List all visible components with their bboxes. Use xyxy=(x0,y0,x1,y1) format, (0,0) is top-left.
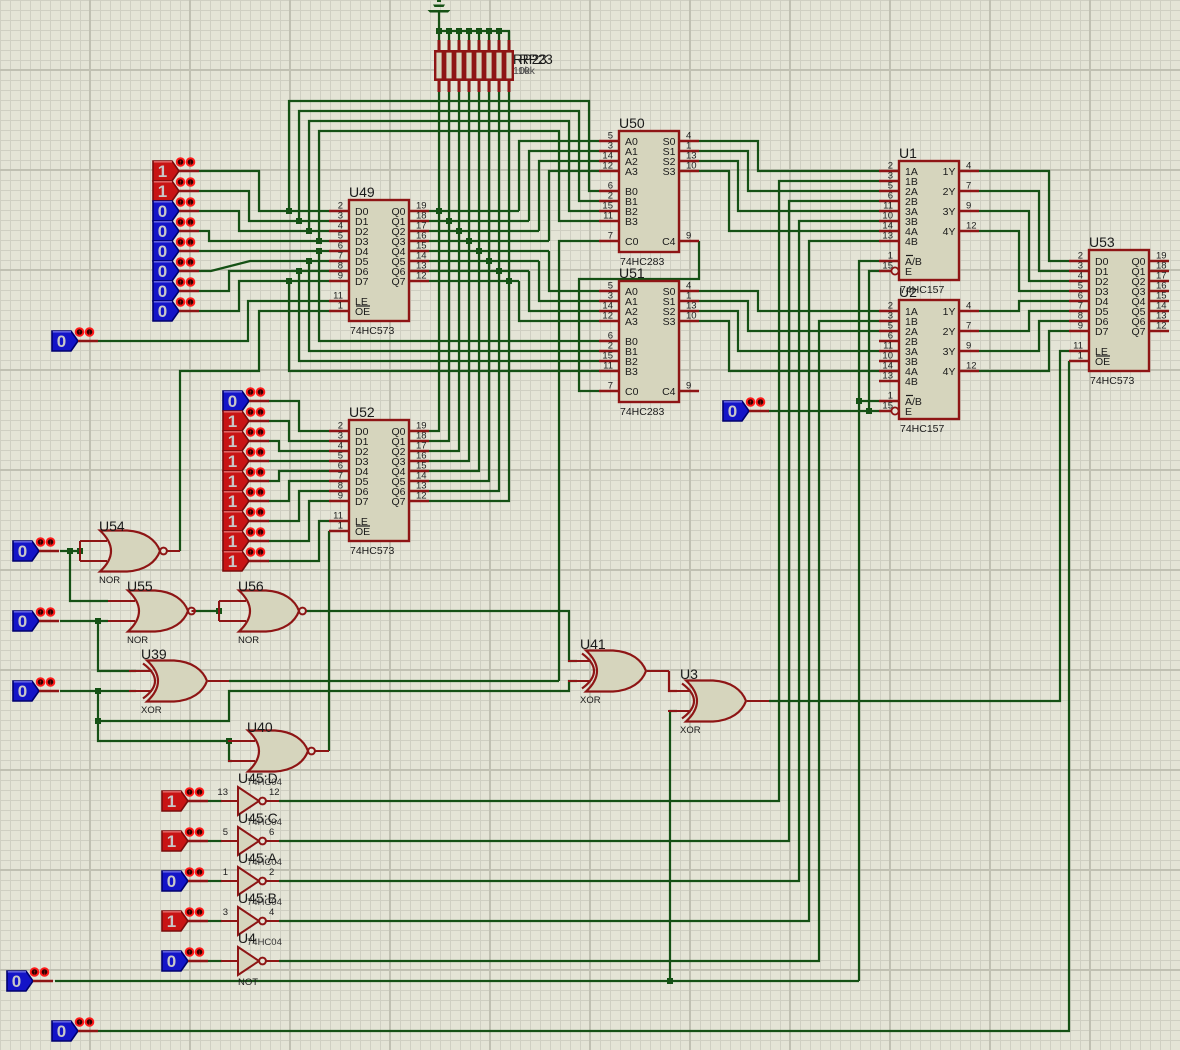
wire U3.out to U53.LE xyxy=(769,351,1069,701)
svg-text:74HC04: 74HC04 xyxy=(247,897,282,908)
wire A/B U2 stub xyxy=(859,400,879,402)
svg-text:↑: ↑ xyxy=(188,830,192,837)
wire U45:C.out to U1.2B xyxy=(279,201,879,841)
svg-text:↑: ↑ xyxy=(249,410,253,417)
svg-text:↑: ↑ xyxy=(179,280,183,287)
svg-text:↑: ↑ xyxy=(188,790,192,797)
svg-text:0: 0 xyxy=(57,332,66,351)
mux U2 74HC157 xyxy=(879,284,979,435)
wire RP23 top bus xyxy=(439,31,509,40)
wire pin341 to U49.LE xyxy=(98,301,329,341)
svg-text:74HC04: 74HC04 xyxy=(247,857,282,868)
wire in52-3 to U52.D2 xyxy=(268,441,329,451)
wire net551 tap to U55.in1 xyxy=(70,551,108,601)
adder U50 74HC283 xyxy=(599,115,699,268)
svg-text:0: 0 xyxy=(228,392,237,411)
svg-text:B3: B3 xyxy=(625,366,638,378)
wire U49 Q3 row xyxy=(429,240,549,242)
svg-text:↓: ↓ xyxy=(759,400,763,407)
svg-text:↓: ↓ xyxy=(189,220,193,227)
ground xyxy=(428,0,451,13)
wire input8 to U49.D7 xyxy=(199,281,329,311)
junction (859,401) xyxy=(856,398,862,404)
svg-text:↓: ↓ xyxy=(259,390,263,397)
svg-text:↓: ↓ xyxy=(198,870,202,877)
wire inverter input y=881 xyxy=(208,880,222,882)
wire RP23 top pin 1 drop xyxy=(438,31,440,40)
logic state input 6 (U49.D5) xyxy=(153,258,199,281)
svg-text:D7: D7 xyxy=(355,496,369,508)
svg-text:↓: ↓ xyxy=(49,680,53,687)
wire U51 A feed x=549 xyxy=(549,251,599,291)
wire net981 to U3.in2 xyxy=(670,711,677,981)
svg-text:↓: ↓ xyxy=(259,430,263,437)
svg-text:1: 1 xyxy=(228,472,237,491)
wire U49 Q0 row xyxy=(429,210,519,212)
wire RP23 top pin 4 drop xyxy=(468,31,470,40)
U40 output stub xyxy=(315,750,329,752)
inverter U45:B xyxy=(221,890,282,935)
svg-text:↓: ↓ xyxy=(198,950,202,957)
svg-text:U52: U52 xyxy=(349,404,375,420)
svg-text:↓: ↓ xyxy=(189,240,193,247)
wire U50 A feed x=539 xyxy=(539,161,599,231)
logic state input 7 (U49.D6) xyxy=(153,278,199,301)
junction (98,621) xyxy=(95,618,101,624)
wire U4.out to U2.1B xyxy=(279,321,879,961)
wire pin691 row to U39.in2 xyxy=(60,690,136,692)
svg-text:0: 0 xyxy=(18,542,27,561)
wire in52-1 to U52.D0 xyxy=(268,401,329,431)
svg-text:74HC157: 74HC157 xyxy=(900,423,945,435)
wire in52-7 to U52.D6 xyxy=(268,491,329,521)
wire U2.2Y to U53.D5 xyxy=(979,311,1069,331)
wire U51 A feed x=539 xyxy=(539,261,599,301)
svg-text:6: 6 xyxy=(269,827,274,838)
svg-text:9: 9 xyxy=(338,271,343,282)
junction (479,31) xyxy=(476,28,482,34)
svg-text:5: 5 xyxy=(223,827,228,838)
wire pin621 row to U55.in2 xyxy=(60,620,108,622)
svg-text:1: 1 xyxy=(158,162,167,181)
wire in52-9 to U52.LE xyxy=(268,521,329,561)
junction (80,551) xyxy=(77,548,83,554)
svg-text:74HC573: 74HC573 xyxy=(350,325,395,337)
svg-text:1Y: 1Y xyxy=(943,306,956,318)
wire U54.out to U49.OE xyxy=(180,311,329,551)
wire inverter input y=801 xyxy=(208,800,222,802)
svg-text:1: 1 xyxy=(167,832,176,851)
wire in52-4 to U52.D3 xyxy=(268,460,329,462)
svg-text:U40: U40 xyxy=(247,719,273,735)
svg-text:74HC573: 74HC573 xyxy=(1090,375,1135,387)
svg-text:U1: U1 xyxy=(899,145,917,161)
junction (459,231) xyxy=(456,228,462,234)
junction (219,611) xyxy=(216,608,222,614)
wire D4 tap down to U51.B0 xyxy=(319,251,599,341)
svg-text:NOT: NOT xyxy=(238,977,258,988)
logic state pin U45:D input xyxy=(162,788,208,811)
wire U51.S1 to U2.2A xyxy=(699,301,879,331)
wire U41.out jog xyxy=(669,671,677,691)
wire inverter input y=961 xyxy=(208,960,222,962)
U54 output stub xyxy=(167,550,181,552)
logic state pin A/B net xyxy=(7,968,53,991)
junction (319,241) xyxy=(316,238,322,244)
junction (229,741) xyxy=(226,738,232,744)
svg-text:↓: ↓ xyxy=(259,470,263,477)
wire input6 to U49.D5 (diagonal) xyxy=(199,261,329,271)
svg-text:↑: ↑ xyxy=(188,910,192,917)
svg-text:0: 0 xyxy=(18,682,27,701)
svg-text:A3: A3 xyxy=(625,316,638,328)
svg-text:NOR: NOR xyxy=(127,635,148,646)
svg-text:↑: ↑ xyxy=(78,1020,82,1027)
wire input5 to U49.D4 xyxy=(199,250,329,252)
inverter U45:A xyxy=(221,850,282,895)
junction (98,721) xyxy=(95,718,101,724)
svg-text:OE: OE xyxy=(355,526,370,538)
svg-text:↓: ↓ xyxy=(189,200,193,207)
logic state input 7 (U52) xyxy=(223,508,269,531)
svg-text:11: 11 xyxy=(603,211,613,222)
wire D6 tap down to U51.B2 xyxy=(299,271,599,361)
svg-text:0: 0 xyxy=(728,402,737,421)
svg-text:U54: U54 xyxy=(99,518,125,534)
wire U45:B.out to U1.4B xyxy=(279,241,879,921)
svg-text:9: 9 xyxy=(966,201,971,212)
svg-text:10: 10 xyxy=(686,311,697,322)
svg-text:U51: U51 xyxy=(619,265,645,281)
U41 output stub xyxy=(647,670,669,672)
wire inverter input y=921 xyxy=(208,920,222,922)
wire U1.2Y to U53.D1 xyxy=(979,191,1069,271)
svg-text:↑: ↑ xyxy=(179,260,183,267)
svg-text:12: 12 xyxy=(966,361,977,372)
wire U50.S2 to U1.3A xyxy=(699,161,879,211)
logic state input 2 (U52) xyxy=(223,408,269,431)
svg-text:4Y: 4Y xyxy=(943,226,956,238)
svg-text:XOR: XOR xyxy=(580,695,601,706)
svg-text:↑: ↑ xyxy=(179,180,183,187)
wire U2.1Y to U53.D4 xyxy=(979,301,1069,311)
svg-text:↓: ↓ xyxy=(259,450,263,457)
resistor pack RP23 xyxy=(434,40,553,92)
wire U50 A feed x=549 xyxy=(549,171,599,241)
svg-text:NOR: NOR xyxy=(238,635,259,646)
svg-text:D7: D7 xyxy=(1095,326,1109,338)
wire RP23 top pin 5 drop xyxy=(478,31,480,40)
wire net1031 to U53.OE xyxy=(98,361,1069,1031)
svg-text:D7: D7 xyxy=(355,276,369,288)
wire input7 to U49.D6 xyxy=(199,271,329,291)
svg-text:0: 0 xyxy=(167,952,176,971)
svg-text:S3: S3 xyxy=(663,166,676,178)
junction (299,221) xyxy=(296,218,302,224)
svg-text:↑: ↑ xyxy=(249,450,253,457)
wire in52-6 to U52.D5 xyxy=(268,481,329,501)
svg-text:1: 1 xyxy=(228,452,237,471)
junction (98,691) xyxy=(95,688,101,694)
svg-text:↓: ↓ xyxy=(198,830,202,837)
wire U1.1Y to U53.D0 xyxy=(979,171,1069,261)
logic state pin U55 input xyxy=(13,608,59,631)
svg-text:E: E xyxy=(905,406,912,418)
wire pin551 row xyxy=(60,550,80,552)
logic state pin E net xyxy=(723,398,769,421)
wire U50.C4 to U51.C0 xyxy=(579,241,699,391)
svg-text:4B: 4B xyxy=(905,236,918,248)
wire U51.S0 to U2.1A xyxy=(699,291,879,311)
svg-text:1Y: 1Y xyxy=(943,166,956,178)
svg-text:7: 7 xyxy=(966,321,971,332)
svg-text:12: 12 xyxy=(602,161,613,172)
XOR gate U39 xyxy=(129,646,207,716)
svg-text:C4: C4 xyxy=(662,236,676,248)
svg-text:↓: ↓ xyxy=(49,610,53,617)
svg-text:1: 1 xyxy=(228,432,237,451)
junction (319,251) xyxy=(316,248,322,254)
junction (449,221) xyxy=(446,218,452,224)
wire net621 tap to U39.in1 xyxy=(98,621,136,671)
svg-text:↓: ↓ xyxy=(189,300,193,307)
svg-text:1: 1 xyxy=(228,492,237,511)
svg-text:9: 9 xyxy=(686,381,691,392)
svg-text:↑: ↑ xyxy=(39,540,43,547)
svg-text:↓: ↓ xyxy=(189,180,193,187)
wire Q-bus vertical x=499 xyxy=(429,92,499,491)
svg-text:↑: ↑ xyxy=(188,870,192,877)
wire ground stem xyxy=(438,12,440,31)
svg-text:XOR: XOR xyxy=(141,705,162,716)
svg-text:Q7: Q7 xyxy=(391,496,405,508)
svg-text:↓: ↓ xyxy=(189,280,193,287)
svg-text:2Y: 2Y xyxy=(943,186,956,198)
junction (289,211) xyxy=(286,208,292,214)
wire U45:A.out to U1.3B xyxy=(279,221,879,881)
svg-text:9: 9 xyxy=(966,341,971,352)
svg-text:↑: ↑ xyxy=(249,490,253,497)
svg-text:9: 9 xyxy=(338,491,343,502)
svg-text:↓: ↓ xyxy=(259,550,263,557)
svg-text:9: 9 xyxy=(686,231,691,242)
svg-text:↓: ↓ xyxy=(88,1020,92,1027)
wire net691 tap down xyxy=(98,691,229,741)
svg-text:S3: S3 xyxy=(663,316,676,328)
wire net981 to A/B xyxy=(859,261,879,981)
junction (479,251) xyxy=(476,248,482,254)
junction (509,281) xyxy=(506,278,512,284)
logic state pin OE U53 xyxy=(52,1018,98,1041)
svg-text:U56: U56 xyxy=(238,578,264,594)
svg-text:↑: ↑ xyxy=(179,220,183,227)
logic state input 3 (U49.D2) xyxy=(153,198,199,221)
wire U50.S3 to U1.4A xyxy=(699,171,879,231)
junction (459,31) xyxy=(456,28,462,34)
wire RP23 top pin 7 drop xyxy=(498,31,500,40)
wire U49 Q1 row xyxy=(429,220,529,222)
logic state pin U45:B input xyxy=(162,908,208,931)
svg-text:12: 12 xyxy=(602,311,613,322)
svg-text:↓: ↓ xyxy=(88,330,92,337)
junction (499,271) xyxy=(496,268,502,274)
svg-text:12: 12 xyxy=(269,787,280,798)
svg-text:13: 13 xyxy=(882,371,893,382)
junction (869,411) xyxy=(866,408,872,414)
svg-text:↑: ↑ xyxy=(249,470,253,477)
wire input4 to U49.D3 xyxy=(199,231,329,241)
svg-text:↓: ↓ xyxy=(259,530,263,537)
svg-text:12: 12 xyxy=(966,221,977,232)
wire U40 input split xyxy=(229,741,232,761)
svg-text:↓: ↓ xyxy=(198,790,202,797)
svg-text:↑: ↑ xyxy=(749,400,753,407)
svg-text:U39: U39 xyxy=(141,646,167,662)
wire U56.out to U41.in1 xyxy=(306,611,577,661)
svg-text:↑: ↑ xyxy=(188,950,192,957)
svg-text:↑: ↑ xyxy=(179,160,183,167)
logic state input 9 (U52) xyxy=(223,548,269,571)
wire D5 tap down to U51.B1 xyxy=(309,261,599,351)
NOR gate U54 xyxy=(80,518,167,586)
logic state pin U39 input xyxy=(13,678,59,701)
junction (489,31) xyxy=(486,28,492,34)
svg-text:E: E xyxy=(905,266,912,278)
wire U2.3Y to U53.D6 xyxy=(979,321,1069,351)
svg-text:↓: ↓ xyxy=(259,490,263,497)
svg-text:B3: B3 xyxy=(625,216,638,228)
wire net691 to U41.in2 xyxy=(98,681,577,721)
svg-text:12: 12 xyxy=(1156,321,1167,332)
wire D2 tap up xyxy=(309,121,599,231)
svg-text:74HC04: 74HC04 xyxy=(247,777,282,788)
svg-text:3Y: 3Y xyxy=(943,206,956,218)
inverter U45:C xyxy=(221,810,282,855)
svg-text:1: 1 xyxy=(228,512,237,531)
svg-text:↑: ↑ xyxy=(249,510,253,517)
wire inverter input y=841 xyxy=(208,840,222,842)
svg-text:↓: ↓ xyxy=(259,410,263,417)
wire U49 Q4 row xyxy=(429,250,549,252)
svg-text:0: 0 xyxy=(158,262,167,281)
svg-text:↓: ↓ xyxy=(259,510,263,517)
NOR gate U40 xyxy=(228,719,315,772)
svg-text:11: 11 xyxy=(603,361,613,372)
svg-text:↓: ↓ xyxy=(198,910,202,917)
svg-text:0: 0 xyxy=(167,872,176,891)
junction (499,31) xyxy=(496,28,502,34)
svg-text:0: 0 xyxy=(158,282,167,301)
wire pin411 to E xyxy=(768,410,879,412)
svg-text:0: 0 xyxy=(12,972,21,991)
U55 output stub xyxy=(192,610,197,612)
logic state pin U54 input xyxy=(13,538,59,561)
logic state input 4 (U52) xyxy=(223,448,269,471)
svg-text:1: 1 xyxy=(228,532,237,551)
junction (439,31) xyxy=(436,28,442,34)
wire Q-bus vertical x=439 xyxy=(429,92,439,431)
logic state input 8 (U49.D7) xyxy=(153,298,199,321)
latch U49 74HC573 xyxy=(329,184,429,337)
wire U40.out to U52.OE xyxy=(328,531,330,751)
svg-text:Q7: Q7 xyxy=(391,276,405,288)
svg-text:4: 4 xyxy=(269,907,274,918)
svg-text:1: 1 xyxy=(338,301,343,312)
junction (299,271) xyxy=(296,268,302,274)
logic state input 5 (U52) xyxy=(223,468,269,491)
logic state input 8 (U52) xyxy=(223,528,269,551)
junction (449,31) xyxy=(446,28,452,34)
logic state input 6 (U52) xyxy=(223,488,269,511)
svg-text:1: 1 xyxy=(158,182,167,201)
logic state input 3 (U52) xyxy=(223,428,269,451)
wire D0 tap up xyxy=(289,101,599,211)
wire U49 Q2 row xyxy=(429,230,539,232)
wire in52-5 to U52.D4 xyxy=(268,471,329,481)
svg-text:XOR: XOR xyxy=(680,725,701,736)
wire U50.S0 to U1.1A xyxy=(699,141,879,171)
junction (670,981) xyxy=(667,978,673,984)
wire U1.4Y to U53.D3 xyxy=(979,231,1069,291)
U39 output stub xyxy=(208,680,229,682)
svg-text:13: 13 xyxy=(882,231,893,242)
svg-text:1: 1 xyxy=(167,792,176,811)
svg-text:↑: ↑ xyxy=(249,430,253,437)
svg-text:↑: ↑ xyxy=(179,240,183,247)
svg-text:Q7: Q7 xyxy=(1131,326,1145,338)
wire U51 A feed x=519 xyxy=(519,281,599,321)
svg-text:2Y: 2Y xyxy=(943,326,956,338)
svg-text:0: 0 xyxy=(158,302,167,321)
wire Q-bus vertical x=479 xyxy=(429,92,479,471)
junction (439,211) xyxy=(436,208,442,214)
svg-text:↑: ↑ xyxy=(33,970,37,977)
wire U51 A feed x=529 xyxy=(529,271,599,311)
svg-text:↓: ↓ xyxy=(49,540,53,547)
svg-text:U50: U50 xyxy=(619,115,645,131)
svg-text:4B: 4B xyxy=(905,376,918,388)
wire Q-bus vertical x=449 xyxy=(429,92,449,441)
svg-text:0: 0 xyxy=(57,1022,66,1041)
svg-text:U3: U3 xyxy=(680,666,698,682)
mux U1 74HC157 xyxy=(879,145,979,296)
svg-text:U49: U49 xyxy=(349,184,375,200)
svg-text:3: 3 xyxy=(223,907,228,918)
logic state input 4 (U49.D3) xyxy=(153,218,199,241)
inverter U4 xyxy=(221,930,282,988)
wire net981 row xyxy=(55,980,859,982)
svg-text:1: 1 xyxy=(228,412,237,431)
wire U55.out to U56 xyxy=(195,610,219,612)
wire in52-2 to U52.D1 xyxy=(268,421,329,441)
XOR gate U41 xyxy=(568,636,646,706)
svg-text:C0: C0 xyxy=(625,386,639,398)
NOR gate U56 xyxy=(219,578,306,646)
inverter U45:D xyxy=(217,770,281,815)
wire U39.out xyxy=(229,680,559,682)
junction (489,261) xyxy=(486,258,492,264)
svg-text:10: 10 xyxy=(686,161,697,172)
svg-text:↓: ↓ xyxy=(189,160,193,167)
svg-text:4Y: 4Y xyxy=(943,366,956,378)
svg-text:0: 0 xyxy=(158,202,167,221)
svg-text:C4: C4 xyxy=(662,386,676,398)
svg-text:7: 7 xyxy=(608,381,613,392)
logic state pin U4 input xyxy=(162,948,208,971)
wire E vertical xyxy=(869,271,879,411)
svg-text:3Y: 3Y xyxy=(943,346,956,358)
wire U2.4Y to U53.D7 xyxy=(979,331,1069,371)
